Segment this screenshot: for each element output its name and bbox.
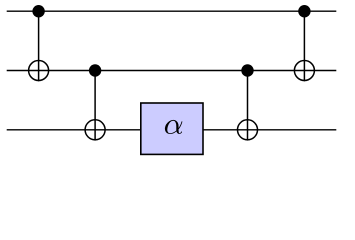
wire CNOT4 vertical connector q0-q1 [303, 11, 305, 81]
quantum circuit: three qubit wires with CNOTs and alpha gate [0, 0, 355, 165]
wire q2 (bottom qubit line) [7, 129, 337, 131]
control dot CNOT2 on q1 [89, 64, 101, 76]
control dot CNOT4 on q0 [298, 5, 310, 17]
target XOR CNOT4 on q1 [294, 61, 314, 81]
wire CNOT3 vertical connector q1-q2 [247, 71, 249, 141]
wire CNOT1 vertical connector q0-q1 [38, 11, 40, 81]
control dot CNOT1 on q0 [32, 5, 44, 17]
gate box alpha on q2 [141, 103, 203, 154]
target XOR CNOT3 on q2 [238, 120, 258, 140]
wire CNOT2 vertical connector q1-q2 [94, 71, 96, 141]
wire q1 (middle qubit line) [7, 70, 337, 72]
target XOR CNOT1 on q1 [29, 61, 49, 81]
target XOR CNOT2 on q2 [85, 120, 105, 140]
label alpha (Computer Modern math italic glyph outline) [165, 120, 182, 134]
control dot CNOT3 on q1 [241, 64, 253, 76]
wire q0 (top qubit line) [7, 10, 337, 12]
